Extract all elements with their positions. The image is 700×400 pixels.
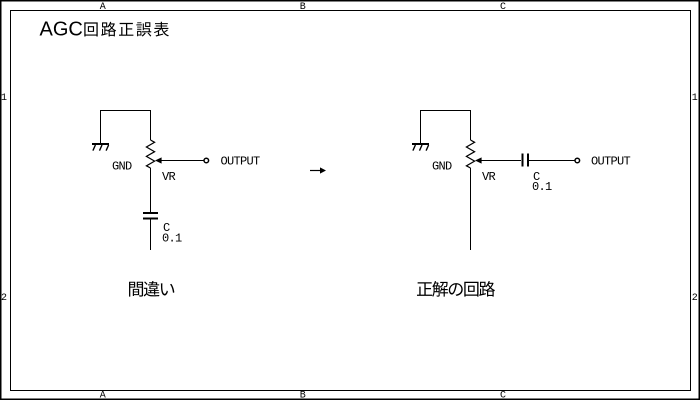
wire: capacitor down stub bbox=[150, 220, 152, 251]
wire: left circuit down to ground bbox=[100, 110, 102, 144]
wire: right circuit down to ground bbox=[420, 110, 422, 144]
svg-text:OUTPUT: OUTPUT bbox=[591, 155, 631, 169]
wiper arrow of VR (right) bbox=[475, 157, 521, 163]
svg-text:VR: VR bbox=[162, 170, 176, 184]
svg-text:1: 1 bbox=[1, 93, 7, 104]
svg-text:GND: GND bbox=[112, 160, 132, 174]
wire: right VR bottom stub bbox=[470, 168, 472, 250]
svg-text:B: B bbox=[300, 2, 306, 13]
label 間違い (wrong) bbox=[129, 281, 174, 297]
ground symbol (right circuit) bbox=[412, 144, 429, 151]
resistor VR (left potentiometer body) bbox=[146, 140, 154, 168]
wire: VR bottom to capacitor bbox=[150, 168, 152, 212]
arrow between circuits bbox=[310, 167, 326, 173]
svg-text:0.1: 0.1 bbox=[162, 232, 182, 246]
svg-text:0.1: 0.1 bbox=[532, 180, 552, 194]
node: OUTPUT terminal (right) bbox=[575, 158, 580, 163]
capacitor C2 (right, series 0.1) bbox=[523, 154, 528, 167]
capacitor C1 (left, 0.1) bbox=[143, 213, 158, 219]
wire: right circuit top horizontal bbox=[421, 110, 471, 112]
node: OUTPUT terminal (left) bbox=[204, 158, 209, 163]
title kanji 回路正誤表 bbox=[84, 22, 169, 37]
svg-text:B: B bbox=[300, 391, 306, 400]
wiper arrow of VR (left) bbox=[155, 157, 204, 163]
svg-text:GND: GND bbox=[432, 160, 452, 174]
wire: right circuit down to resistor bbox=[470, 110, 472, 140]
label 正解の回路 (correct circuit) bbox=[417, 281, 495, 297]
svg-text:C: C bbox=[500, 391, 506, 400]
svg-text:OUTPUT: OUTPUT bbox=[221, 155, 261, 169]
wire: capacitor to output terminal bbox=[529, 160, 575, 162]
svg-text:2: 2 bbox=[1, 293, 7, 304]
svg-text:A: A bbox=[100, 391, 106, 400]
wire: left circuit top horizontal bbox=[101, 110, 151, 112]
svg-text:AGC: AGC bbox=[40, 19, 83, 41]
wire: left circuit down to resistor bbox=[150, 110, 152, 140]
svg-text:A: A bbox=[100, 2, 106, 13]
svg-text:VR: VR bbox=[482, 170, 496, 184]
svg-text:2: 2 bbox=[692, 293, 698, 304]
svg-text:C: C bbox=[500, 2, 506, 13]
svg-text:1: 1 bbox=[692, 93, 698, 104]
ground symbol (left circuit) bbox=[92, 144, 109, 151]
resistor VR (right potentiometer body) bbox=[466, 140, 474, 168]
